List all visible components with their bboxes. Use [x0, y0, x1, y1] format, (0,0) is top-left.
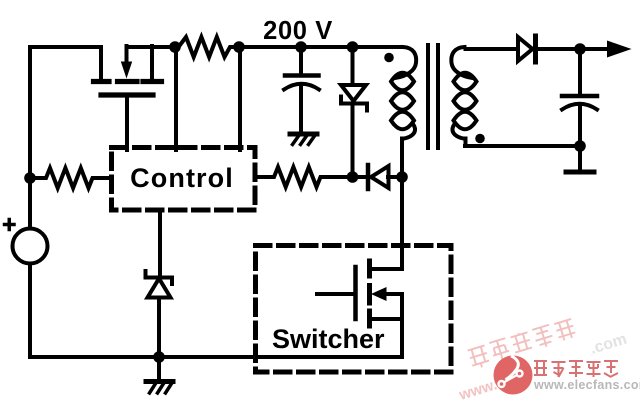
- Switcher block dashed box: [256, 246, 452, 373]
- transistor M1 body contact bar: [118, 79, 138, 84]
- resistor R3 (input sense): [30, 168, 111, 188]
- transistor Q2 gate lead: [317, 292, 353, 296]
- wire top-left horizontal rail: [30, 45, 101, 49]
- wire secondary bottom to node I: [465, 144, 580, 148]
- node H junction dot (output): [574, 43, 586, 55]
- node J junction dot: [153, 351, 165, 363]
- node G junction dot: [396, 171, 408, 183]
- watermark red CJK text: [534, 361, 618, 377]
- wire node A down to Control: [174, 47, 178, 150]
- transistor M1 gate lead wire to Control: [125, 96, 129, 151]
- svg-text:www.: www.: [456, 376, 499, 403]
- wire 200V top rail: [239, 45, 402, 49]
- node F junction dot: [347, 171, 359, 183]
- ground G1 (hatched): [290, 134, 317, 145]
- resistor R1: [175, 37, 239, 57]
- wire Control bottom to zener D4: [158, 210, 162, 277]
- capacitor C2 (output): [562, 49, 597, 170]
- resistor R2 (Control to feedback node): [256, 167, 347, 187]
- svg-text:www.elecfans.com: www.elecfans.com: [533, 378, 640, 392]
- svg-text:Control: Control: [130, 163, 234, 193]
- node I junction dot: [574, 140, 586, 152]
- zener diode D1: [341, 47, 367, 177]
- node D junction dot (zener branch): [347, 41, 359, 53]
- V1 plus sign: [5, 220, 15, 230]
- wire left rail vertical: [28, 47, 32, 227]
- node E junction dot: [24, 172, 36, 184]
- wire D2 to node G: [388, 175, 402, 179]
- transistor M1 body arrow: [121, 46, 132, 79]
- transistor M1 (high-side MOSFET) source contact bar: [94, 79, 110, 84]
- wire bottom rail: [30, 355, 402, 359]
- zener diode D4 (pointing up): [146, 271, 173, 357]
- wire Q2 source to bottom rail: [400, 294, 404, 357]
- node C junction dot (bulk cap): [295, 41, 307, 53]
- transformer T1 secondary phase dot: [475, 134, 485, 144]
- ground G3 (bar): [566, 170, 594, 175]
- watermark logo disc: [494, 356, 533, 395]
- wire secondary top to diode D3: [466, 47, 518, 51]
- transistor M1 drain contact bar: [143, 79, 162, 84]
- capacitor C1: [284, 47, 319, 132]
- ground G2 (hatched): [146, 357, 173, 393]
- transistor Q2 (switch MOSFET) drain stub: [369, 267, 402, 271]
- watermark diagonal CJK text: [467, 317, 577, 370]
- wire node B down to Control: [238, 47, 242, 150]
- transformer T1 core: [428, 45, 438, 148]
- diode D3 (output rectifier): [518, 36, 536, 62]
- wire MOSFET M1 source lead: [99, 47, 103, 78]
- transformer T1 secondary winding: [451, 47, 476, 146]
- transformer T1 primary winding: [391, 47, 416, 139]
- transformer T1 primary phase dot: [384, 53, 394, 63]
- node B junction dot: [233, 41, 245, 53]
- node A junction dot: [169, 41, 181, 53]
- voltage source V1: [13, 229, 48, 264]
- output arrow: [607, 41, 632, 58]
- wire D3 to output node: [536, 47, 607, 51]
- transistor Q2 source stub: [369, 317, 402, 321]
- wire T1 primary bottom to node G: [400, 139, 404, 178]
- transistor Q2 body arrow: [371, 287, 402, 301]
- svg-text:200 V: 200 V: [263, 17, 333, 45]
- wire node G down to Q2 drain: [400, 177, 404, 269]
- diode D2 (pointing left): [368, 165, 389, 189]
- svg-text:.com: .com: [588, 331, 629, 358]
- transistor M1 gate bar: [101, 92, 153, 97]
- transistor Q2 gate bar: [353, 267, 358, 319]
- Control block dashed box: [112, 148, 256, 211]
- wire V1 to bottom rail: [28, 264, 32, 358]
- transistor Q2 channel segments: [367, 261, 372, 326]
- wire over M1 to node A: [127, 45, 176, 49]
- wire node F to diode D2: [353, 175, 368, 179]
- transistor M1 drain lead: [150, 46, 154, 78]
